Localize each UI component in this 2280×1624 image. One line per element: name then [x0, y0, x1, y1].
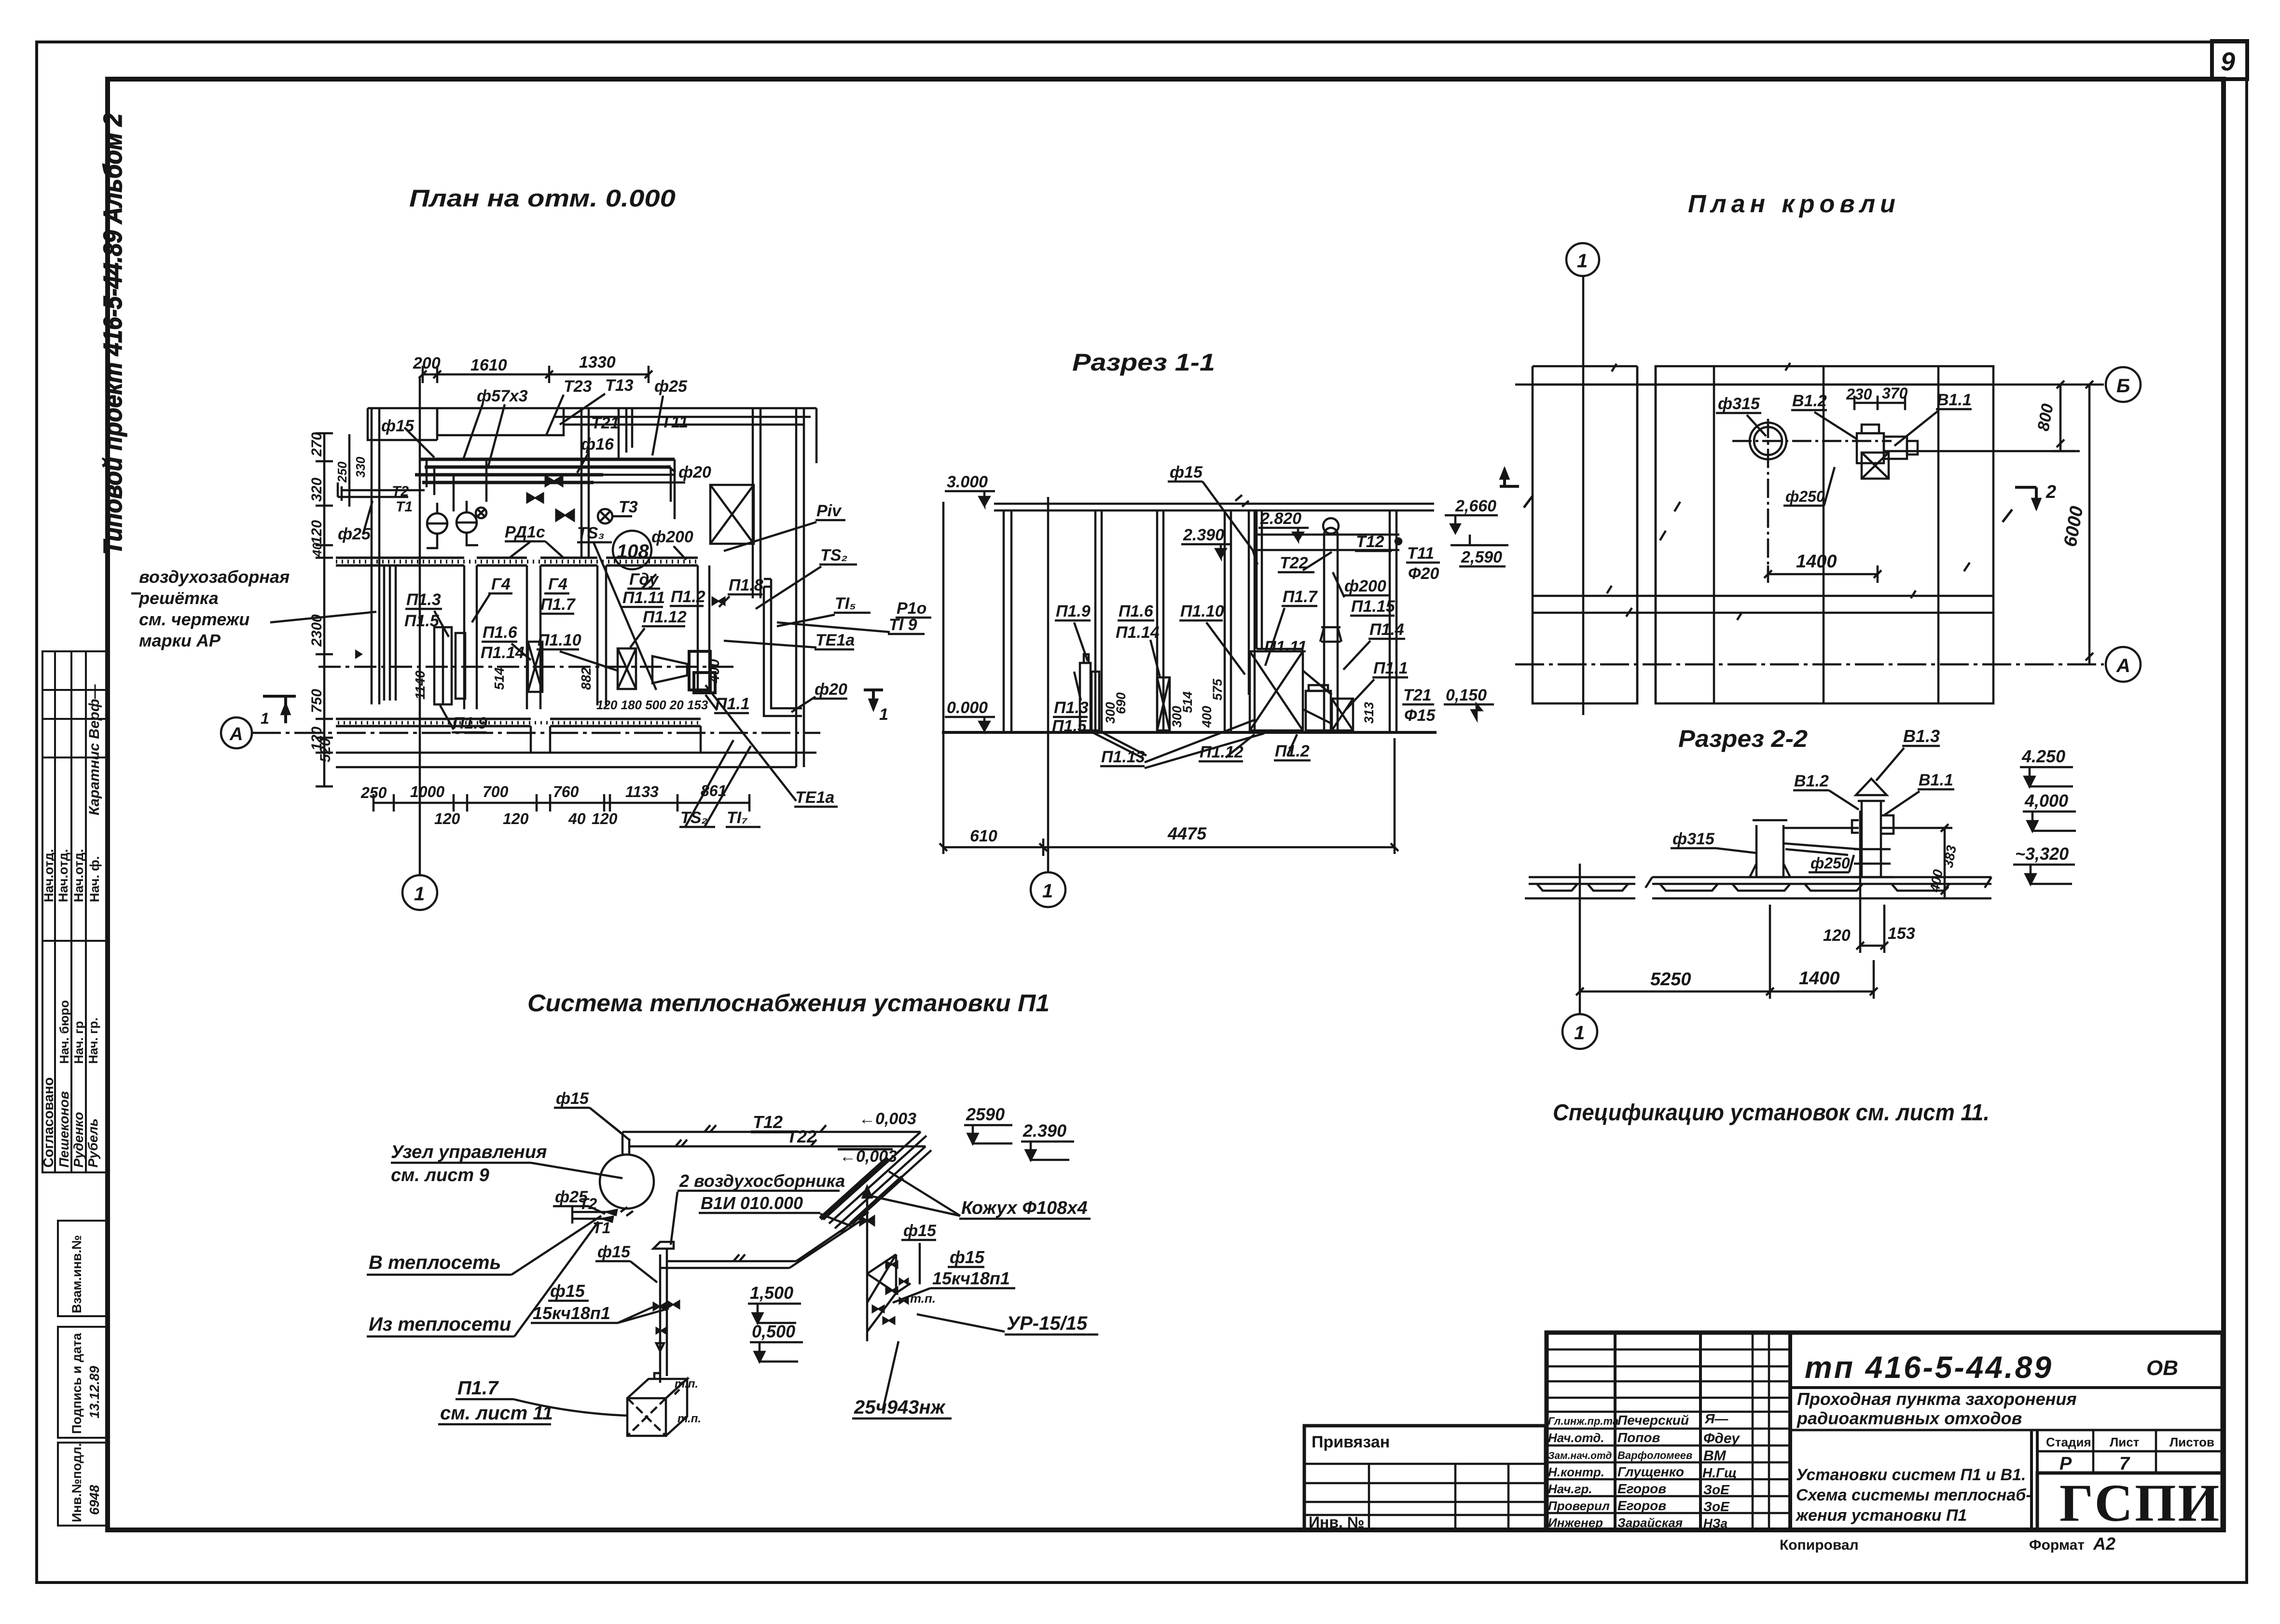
sheet number box: [2212, 41, 2247, 79]
svg-text:Н.контр.: Н.контр.: [1548, 1465, 1604, 1479]
approval table rotated texts: [41, 1000, 100, 1168]
svg-text:1000: 1000: [410, 783, 444, 800]
svg-text:Т1: Т1: [593, 1219, 610, 1237]
section mark 1 left of plan: [261, 696, 296, 727]
cross valve T3: [598, 498, 638, 523]
svg-text:Схема системы теплоснаб-: Схема системы теплоснаб-: [1796, 1486, 2031, 1504]
svg-text:радиоактивных отходов: радиоактивных отходов: [1796, 1408, 2022, 1428]
svg-text:Привязан: Привязан: [1312, 1433, 1390, 1451]
level 0.500: [750, 1321, 803, 1362]
main valve vertical: [860, 1187, 874, 1341]
label P1.10 plan: [537, 631, 618, 671]
svg-text:П1.3: П1.3: [1054, 699, 1089, 717]
svg-text:2.390: 2.390: [1183, 526, 1224, 544]
svg-text:313: 313: [1362, 702, 1376, 724]
svg-text:153: 153: [1888, 924, 1915, 943]
svg-text:см. чертежи: см. чертежи: [139, 609, 249, 629]
interior post 3: [1225, 510, 1231, 732]
duct f250 2-2: [1783, 828, 1859, 855]
svg-text:2: 2: [2045, 482, 2056, 502]
unit P1.6/14 column: [528, 642, 542, 692]
svg-text:П1.9: П1.9: [1056, 602, 1091, 620]
svg-text:120 180 500 20 153: 120 180 500 20 153: [596, 698, 708, 712]
doc number underline: [1790, 1386, 2223, 1389]
svg-text:1: 1: [1574, 1022, 1585, 1044]
pipe riser from circle: [622, 1132, 629, 1155]
UR bypass assembly: [867, 1254, 936, 1332]
svg-text:Т23: Т23: [564, 377, 592, 396]
svg-text:Инженер: Инженер: [1548, 1515, 1603, 1530]
svg-text:250: 250: [360, 784, 387, 801]
dim 6000 roof: [2060, 381, 2093, 664]
svg-text:3.000: 3.000: [947, 473, 988, 491]
svg-text:Лист: Лист: [2110, 1435, 2140, 1449]
svg-text:1: 1: [1042, 881, 1053, 902]
svg-text:Подпись и дата: Подпись и дата: [69, 1333, 84, 1434]
label f15 right heat: [901, 1222, 937, 1284]
label f20 right: [667, 463, 711, 482]
svg-text:750: 750: [309, 689, 325, 713]
label P1.2 plan: [670, 588, 705, 606]
svg-text:П1.2: П1.2: [671, 588, 705, 606]
svg-text:Н.Гщ: Н.Гщ: [1702, 1465, 1737, 1480]
svg-text:ф25: ф25: [654, 377, 688, 396]
svg-text:П1.10: П1.10: [1180, 602, 1224, 620]
svg-text:Т1: Т1: [396, 499, 413, 515]
svg-text:В1.3: В1.3: [1903, 726, 1940, 746]
stadia list listov header: [2037, 1430, 2223, 1474]
svg-text:РД1с: РД1с: [505, 523, 545, 541]
svg-text:Каратнис Верф—: Каратнис Верф—: [86, 684, 102, 815]
right outer wall: [796, 408, 816, 767]
svg-text:Система теплоснабжения уст: Система теплоснабжения установки П1: [527, 990, 1050, 1017]
GSPI logo box: [2037, 1473, 2223, 1530]
label f250 2-2: [1809, 854, 1854, 872]
fan cone: [652, 656, 687, 683]
svg-text:330: 330: [353, 456, 368, 478]
label f20 lower right: [791, 680, 847, 712]
level 2.660: [1445, 497, 1498, 533]
svg-text:ф15: ф15: [597, 1243, 631, 1261]
svg-text:П1.11: П1.11: [1264, 638, 1307, 656]
svg-text:П1.7: П1.7: [457, 1377, 499, 1399]
bottom wall lines: [336, 726, 816, 767]
axis bubble 1 s22: [1562, 1014, 1597, 1049]
axis bubble B: [2106, 367, 2141, 402]
dim 400 small: [706, 659, 722, 684]
svg-text:Руденко: Руденко: [71, 1112, 86, 1168]
svg-text:700: 700: [483, 783, 509, 800]
privyazan box: [1304, 1426, 1546, 1531]
axis bubble 1 roof: [1566, 243, 1599, 276]
svg-text:120: 120: [503, 810, 529, 827]
svg-text:Формат: Формат: [2029, 1537, 2085, 1553]
svg-text:Печерский: Печерский: [1617, 1413, 1689, 1428]
label f57x3: [463, 387, 528, 466]
dim 230 370 roof: [1846, 385, 1908, 410]
svg-text:ф16: ф16: [581, 435, 614, 454]
pipe L-bend to T21: [619, 408, 632, 459]
svg-text:Нач.отд.: Нач.отд.: [71, 849, 86, 902]
svg-text:ф315: ф315: [1672, 830, 1715, 848]
pipe elbow risers: [427, 459, 486, 511]
svg-text:П1.8: П1.8: [729, 576, 763, 594]
svg-text:Установки систем П1 и В1.: Установки систем П1 и В1.: [1796, 1466, 2026, 1484]
svg-text:ф20: ф20: [815, 680, 847, 699]
level 2.590 heat: [964, 1104, 1012, 1143]
label B1.2 roof: [1791, 392, 1857, 439]
labels P1.13 P1.12 P1.2 bottom: [1100, 720, 1311, 768]
svg-text:5250: 5250: [1650, 969, 1691, 990]
svg-text:П1.12: П1.12: [1200, 743, 1244, 761]
svg-text:НЗа: НЗа: [1703, 1516, 1727, 1530]
svg-text:2 воздухосборника: 2 воздухосборника: [679, 1171, 845, 1191]
svg-text:ф200: ф200: [1344, 577, 1386, 595]
svg-text:7: 7: [2119, 1454, 2130, 1474]
svg-text:Фдеу: Фдеу: [1703, 1431, 1740, 1446]
svg-text:Нач. бюро: Нач. бюро: [57, 1000, 71, 1064]
T2 T1 inlet pipes: [572, 1195, 633, 1237]
label PD1c: [505, 523, 565, 559]
svg-text:Егоров: Егоров: [1617, 1481, 1666, 1496]
svg-text:Т12: Т12: [1356, 533, 1384, 551]
svg-text:9: 9: [2221, 47, 2235, 76]
dim 800 roof: [1884, 381, 2080, 451]
air intake grille: [355, 564, 396, 701]
sidebar upper table rotated texts: [41, 684, 102, 902]
svg-text:Попов: Попов: [1617, 1430, 1660, 1445]
sheet name: [1795, 1466, 2031, 1525]
axis 1 line roof: [1582, 276, 1585, 715]
label f15 15kch18p1 left: [533, 1281, 610, 1323]
svg-text:П1.7: П1.7: [1283, 588, 1318, 606]
svg-text:ф25: ф25: [555, 1188, 588, 1206]
signature names column: [1548, 1411, 1740, 1530]
air collectors underline + leaders: [671, 1191, 852, 1245]
svg-text:25ч943нж: 25ч943нж: [854, 1397, 946, 1418]
svg-text:1133: 1133: [625, 783, 659, 800]
label kozhuh: [869, 1171, 1091, 1219]
roof outline left panel: [1533, 366, 1637, 703]
label B1.3: [1876, 726, 1940, 781]
svg-text:Егоров: Егоров: [1617, 1498, 1666, 1513]
svg-text:120: 120: [1823, 926, 1851, 945]
svg-text:ф15: ф15: [556, 1089, 589, 1108]
svg-text:Из теплосети: Из теплосети: [369, 1314, 511, 1335]
svg-text:т.п.: т.п.: [675, 1377, 698, 1390]
control unit circle: [600, 1155, 654, 1209]
leaders right: [893, 1267, 1015, 1304]
level mark 2.820: [1258, 509, 1309, 540]
pipe T22 heat: [629, 1127, 926, 1166]
svg-text:Р: Р: [2059, 1454, 2072, 1474]
level mark 0.000: [945, 699, 995, 730]
level mark 2.390: [1181, 526, 1231, 558]
label Gdu: [627, 570, 660, 589]
valve P1.8: [712, 597, 725, 605]
pipe T21 run: [555, 413, 811, 432]
label control unit: [391, 1142, 547, 1185]
svg-text:П1.15: П1.15: [1351, 597, 1396, 616]
svg-text:610: 610: [970, 827, 997, 845]
unit P1.3/5 sect: [1080, 654, 1099, 730]
level 0.150: [1444, 686, 1494, 719]
label P1.1 plan: [705, 695, 750, 713]
dims 383 400 rotated: [1882, 824, 1959, 898]
unit P1.9: [434, 627, 465, 704]
svg-text:1400: 1400: [1799, 968, 1840, 989]
label TS2 right: [756, 546, 857, 609]
label f15 15kch right: [932, 1247, 1010, 1288]
svg-text:Взам.инв.№: Взам.инв.№: [69, 1235, 84, 1313]
section floor line: [942, 731, 1437, 734]
label Piv: [724, 502, 845, 551]
svg-text:Разрез 2-2: Разрез 2-2: [1678, 725, 1808, 752]
roof outline main panel: [1656, 366, 1993, 703]
svg-text:200: 200: [413, 354, 441, 372]
interior post 2: [1157, 510, 1163, 732]
svg-text:Проходная пункта захоронения: Проходная пункта захоронения: [1797, 1389, 2077, 1409]
label TE1a right: [724, 631, 855, 649]
label f25 left: [338, 501, 373, 543]
project name underline: [1790, 1429, 2223, 1431]
label f15 top heat: [554, 1089, 630, 1141]
svg-text:ф15: ф15: [950, 1247, 985, 1267]
svg-text:см. лист 9: см. лист 9: [391, 1165, 489, 1185]
svg-text:Гл.инж.пр.та: Гл.инж.пр.та: [1548, 1415, 1618, 1427]
vertical duct lines: [1249, 510, 1255, 732]
label P1.9 sect: [1055, 602, 1091, 661]
roof slab section left: [1525, 877, 1635, 898]
dims 120 153: [1823, 811, 1915, 953]
label B1.2 2-2: [1793, 772, 1859, 810]
valve V3: [556, 509, 574, 521]
svg-text:514: 514: [492, 667, 507, 690]
svg-text:Глущенко: Глущенко: [1617, 1464, 1684, 1479]
label P1.6/P1.14: [481, 623, 531, 662]
svg-text:Я—: Я—: [1704, 1411, 1728, 1426]
svg-text:воздухозаборная: воздухозаборная: [139, 567, 290, 587]
upper wall hatched band: [336, 558, 698, 565]
svg-text:2,590: 2,590: [1461, 548, 1502, 566]
air intake leader: [131, 593, 376, 622]
label TI5: [777, 594, 871, 626]
svg-text:ТS₂: ТS₂: [820, 546, 847, 564]
section left wall: [1004, 510, 1011, 732]
pipe T12 section: [1255, 533, 1399, 551]
level 4.250: [2020, 746, 2073, 786]
svg-text:0,150: 0,150: [1446, 686, 1487, 704]
svg-text:250: 250: [335, 461, 349, 483]
label f25 heat: [553, 1188, 605, 1214]
section bottom dim: [940, 502, 1398, 856]
svg-text:1: 1: [879, 705, 888, 724]
label T11 f20: [1396, 538, 1440, 583]
svg-text:ВМ: ВМ: [1703, 1448, 1727, 1464]
label TS2/TI7 bottom: [679, 740, 760, 827]
svg-text:П1.14: П1.14: [481, 644, 525, 662]
label TS3: [577, 524, 656, 690]
svg-text:В1.1: В1.1: [1937, 391, 1972, 409]
svg-text:П1.5: П1.5: [1052, 717, 1087, 735]
pipe bundle headers: [415, 459, 675, 482]
svg-text:ф250: ф250: [1785, 488, 1825, 505]
svg-text:ЗоЕ: ЗоЕ: [1703, 1482, 1730, 1497]
plan upper duct rectangle: [437, 408, 564, 435]
svg-text:13.12.89: 13.12.89: [87, 1366, 102, 1418]
svg-text:Т11: Т11: [1407, 544, 1434, 563]
svg-text:Нач. гр.: Нач. гр.: [86, 1018, 100, 1064]
duct risers to shaft: [581, 408, 589, 558]
level 4.000: [2023, 791, 2076, 831]
title block outline: [1547, 1333, 2223, 1530]
to heat net text: [367, 1216, 601, 1275]
svg-text:Зам.нач.отд: Зам.нач.отд: [1548, 1450, 1612, 1461]
svg-text:П1.6: П1.6: [483, 623, 518, 642]
svg-text:ТЕ1а: ТЕ1а: [815, 631, 855, 649]
section mark 1 right: [864, 690, 888, 724]
pipe T12 heat: [622, 1110, 921, 1132]
svg-text:П1.4: П1.4: [1369, 620, 1404, 639]
svg-text:1400: 1400: [1796, 551, 1837, 572]
crossed box roof: [1862, 453, 1889, 479]
svg-text:Пешеконов: Пешеконов: [56, 1091, 71, 1168]
level 1.500: [748, 1283, 801, 1323]
svg-text:Спецификацию установок см. л: Спецификацию установок см. лист 11.: [1553, 1100, 1990, 1126]
svg-text:520: 520: [318, 738, 333, 762]
roof slab section right: [1645, 877, 1991, 898]
sidebar lower rotated texts: [69, 1235, 102, 1522]
label P1.9: [440, 705, 487, 732]
roof panel joints verticals: [1637, 366, 1938, 703]
label P1.12 plan: [630, 608, 687, 647]
unit P1.10 crossed box: [618, 648, 636, 689]
svg-text:В1.2: В1.2: [1792, 392, 1827, 410]
svg-text:Нач. гр: Нач. гр: [71, 1021, 86, 1064]
room label G4 left: [472, 575, 512, 622]
label P1.6/P1.14 sect: [1116, 602, 1160, 677]
svg-text:Копировал: Копировал: [1780, 1537, 1859, 1553]
label T13: [560, 376, 634, 425]
label f15 mid: [595, 1243, 657, 1282]
svg-text:В1.1: В1.1: [1919, 771, 1953, 789]
level 2.390 heat: [1021, 1121, 1074, 1160]
chimney stack 2-2: [1750, 820, 1790, 877]
pump P2: [456, 501, 478, 545]
label P1.7 heat: [440, 1377, 553, 1424]
heater risers: [653, 1242, 796, 1383]
axis line 1 vertical: [419, 376, 421, 875]
svg-text:А2: А2: [2093, 1534, 2115, 1554]
label TE1a bottom: [705, 685, 838, 807]
svg-text:План кровли: План кровли: [1688, 190, 1900, 218]
label P1.4: [1343, 620, 1405, 670]
svg-text:А: А: [229, 724, 243, 744]
svg-text:П1.9: П1.9: [453, 714, 487, 732]
svg-text:П1.14: П1.14: [1116, 623, 1160, 642]
section mark 2 left: [1500, 469, 1533, 508]
svg-text:П1.11: П1.11: [622, 589, 665, 607]
svg-text:ТЕ1а: ТЕ1а: [795, 788, 834, 807]
svg-text:Разрез 1-1: Разрез 1-1: [1072, 349, 1215, 376]
axis bubble A: [221, 717, 252, 748]
svg-text:Т21: Т21: [1403, 686, 1432, 704]
label 25ch943nzh: [852, 1341, 952, 1418]
svg-text:УР-15/15: УР-15/15: [1007, 1313, 1088, 1334]
svg-text:ф15: ф15: [1170, 463, 1203, 482]
svg-text:ТI 9: ТI 9: [889, 616, 917, 634]
svg-text:т.п.: т.п.: [910, 1291, 936, 1306]
svg-text:575: 575: [1210, 678, 1225, 701]
svg-text:4.250: 4.250: [2021, 746, 2065, 766]
svg-text:1: 1: [414, 883, 425, 905]
svg-text:Г4: Г4: [491, 575, 511, 593]
axis B line: [1515, 384, 2104, 386]
partition walls vertical: [464, 565, 709, 709]
svg-text:Инв. №: Инв. №: [1309, 1514, 1364, 1531]
label TI9: [777, 616, 925, 634]
svg-text:882: 882: [579, 667, 594, 690]
svg-text:План на отм. 0.000: План на отм. 0.000: [409, 185, 676, 212]
level 3.320: [2013, 844, 2075, 884]
pipe run to valves right: [594, 459, 685, 519]
svg-text:270: 270: [309, 432, 325, 457]
label P1.11 sect: [1264, 638, 1307, 656]
heater P1.7 box: [627, 1373, 701, 1436]
svg-text:Инв.№подл.: Инв.№подл.: [69, 1443, 84, 1522]
pipes to heat net left: [338, 482, 425, 515]
svg-text:ф250: ф250: [1810, 854, 1850, 872]
svg-text:40: 40: [568, 810, 586, 827]
sheet name divider: [2030, 1430, 2033, 1530]
labels P1.3 P1.5 bottom left: [1052, 672, 1089, 735]
equipment axis centerline: [318, 666, 738, 668]
svg-text:В теплосеть: В теплосеть: [369, 1252, 501, 1273]
format text: [2029, 1534, 2115, 1554]
node circle 108: [613, 531, 651, 569]
control unit leader: [391, 1163, 622, 1178]
label P1.10 sect: [1179, 602, 1245, 674]
svg-text:Г4: Г4: [548, 575, 567, 593]
plan north wall line: [368, 407, 816, 410]
air intake note text: [138, 567, 290, 650]
vent shaft crossed rect: [710, 485, 754, 544]
leaders 15kch: [531, 1301, 669, 1323]
svg-text:ф20: ф20: [678, 463, 711, 482]
svg-text:Стадия: Стадия: [2046, 1435, 2091, 1449]
label P1.7 sect: [1265, 588, 1318, 666]
valve V1: [545, 476, 563, 486]
svg-text:Т22: Т22: [787, 1127, 816, 1146]
svg-text:2.820: 2.820: [1260, 509, 1301, 528]
svg-text:0.000: 0.000: [947, 699, 988, 717]
svg-text:ТS₃: ТS₃: [577, 524, 605, 542]
bottom dim 5250 1400: [1576, 864, 1878, 1013]
svg-text:В1И 010.000: В1И 010.000: [701, 1193, 803, 1213]
fan stack B1.1 2-2: [1851, 779, 1894, 877]
valve V2: [527, 493, 543, 503]
plan left dim chain: [309, 432, 333, 786]
svg-text:230: 230: [1846, 385, 1872, 403]
label P1.8: [719, 576, 763, 607]
svg-text:Рубель: Рубель: [85, 1118, 100, 1168]
right wall channel: [764, 579, 802, 716]
svg-text:марки АР: марки АР: [139, 631, 221, 650]
svg-text:Т21: Т21: [591, 414, 620, 432]
svg-text:ГСПИ: ГСПИ: [2059, 1473, 2221, 1532]
bottom wall hatched band: [336, 719, 701, 726]
interior post 4: [1256, 510, 1262, 649]
